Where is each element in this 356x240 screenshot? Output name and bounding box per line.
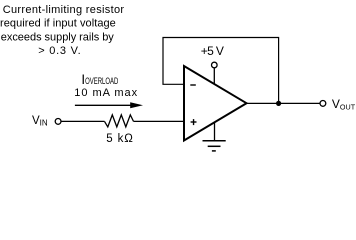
current arrow [75, 102, 143, 108]
svg-text:required if input voltage: required if input voltage [0, 18, 116, 30]
wire feedback loop and inverting input [163, 38, 279, 104]
wire op-amp to ground [214, 123, 216, 141]
note text block [0, 4, 124, 57]
svg-text:10 mA max: 10 mA max [74, 87, 137, 99]
svg-text:> 0.3 V.: > 0.3 V. [38, 45, 80, 57]
svg-text:+5 V: +5 V [201, 44, 224, 58]
terminal VIN [55, 119, 61, 125]
pin minus [190, 84, 196, 86]
wire VIN to resistor [61, 120, 104, 122]
ground [203, 141, 226, 151]
wire +5V to op-amp [213, 68, 215, 85]
op-amp U1 [184, 66, 247, 141]
terminal +5V [212, 62, 218, 68]
pin plus [191, 119, 197, 125]
node junction dot [276, 101, 281, 106]
svg-text:5 kΩ: 5 kΩ [106, 133, 133, 145]
wire resistor to op-amp + input [134, 120, 185, 122]
terminal VOUT [320, 101, 326, 107]
svg-text:exceeds supply rails by: exceeds supply rails by [1, 31, 115, 43]
wire op-amp output [247, 102, 321, 104]
resistor R1 [105, 115, 134, 127]
svg-text:Current-limiting resistor: Current-limiting resistor [3, 4, 125, 16]
